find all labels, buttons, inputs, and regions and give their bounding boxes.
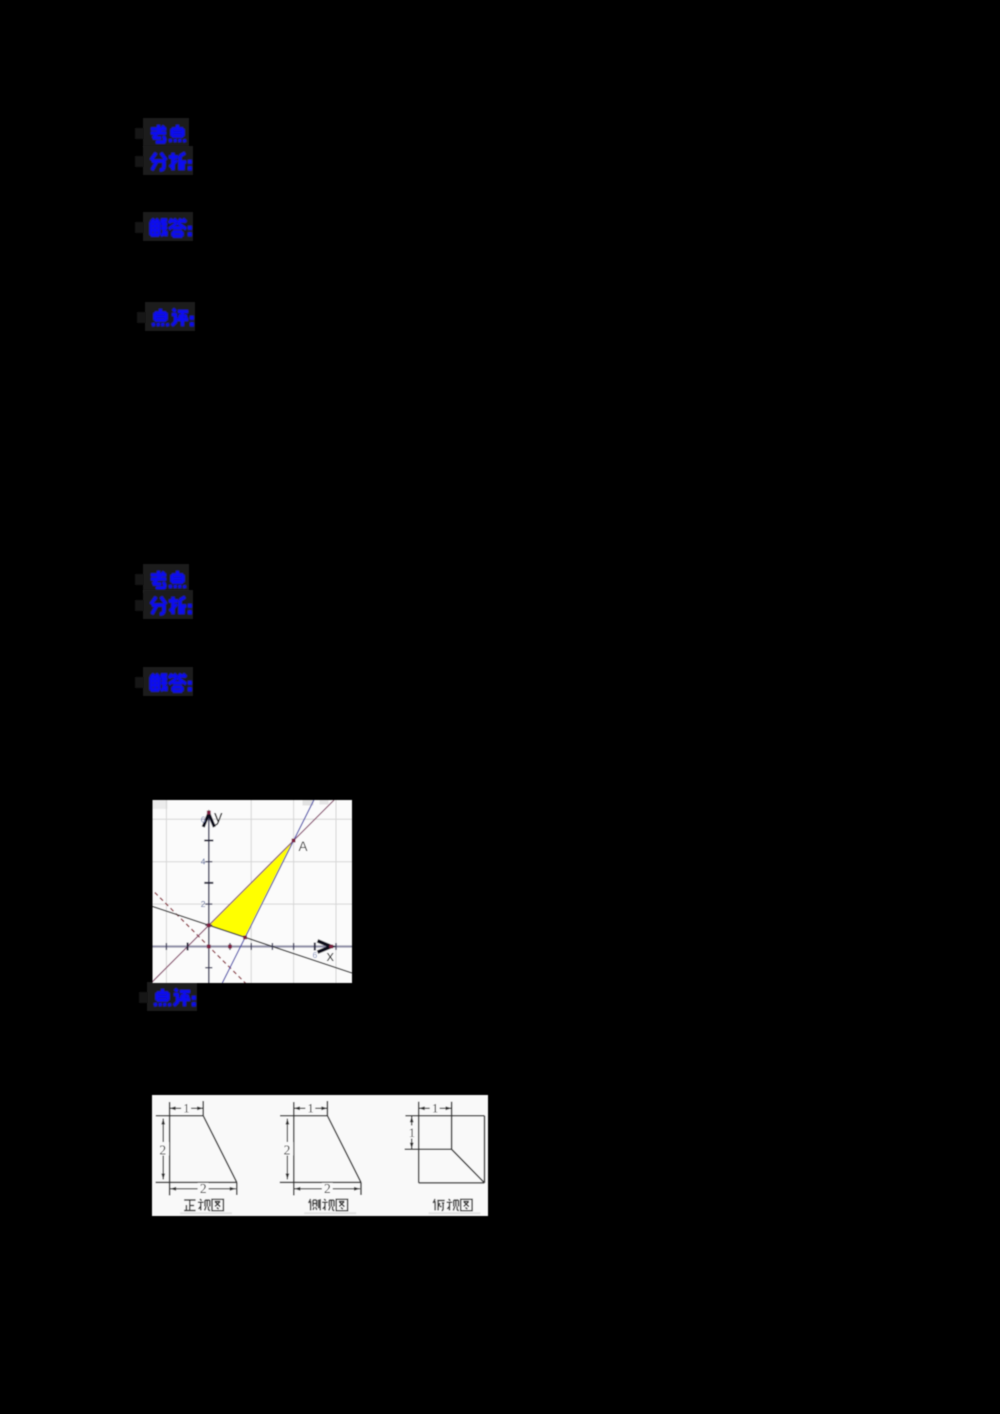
- three-view drawing strip: [152, 1095, 488, 1216]
- svg-text:1: 1: [409, 1126, 415, 1140]
- label 解答: (blue): [135, 212, 193, 241]
- top view caption: [433, 1199, 472, 1211]
- y-axis arrowhead: [203, 814, 214, 828]
- label 考点 (blue): [135, 564, 189, 593]
- y-axis: [208, 811, 210, 983]
- svg-text:2: 2: [201, 899, 206, 909]
- front view 正视图 dim 2 (left): [162, 1119, 164, 1180]
- graph figure: linear-programming feasible region: [151, 800, 352, 984]
- label 点评: (blue): [139, 982, 197, 1011]
- svg-text:6: 6: [201, 814, 206, 824]
- svg-text:1: 1: [307, 1102, 313, 1116]
- label 分析: (blue): [135, 590, 193, 619]
- top view dim 1 (left): [411, 1116, 413, 1149]
- side view 侧视图 trapezoid outline: [280, 1101, 361, 1195]
- blue line y=2x-3: [222, 800, 314, 983]
- svg-text:y: y: [214, 807, 223, 826]
- side view 侧视图 dim 1 (top): [294, 1107, 328, 1109]
- top view dim 1 (top): [419, 1107, 452, 1109]
- side view 侧视图 caption: [309, 1199, 348, 1211]
- gridlines: [153, 800, 353, 983]
- front view 正视图 dim 1 (top): [170, 1107, 204, 1109]
- graph canvas background: [153, 800, 353, 983]
- svg-text:2: 2: [324, 1181, 331, 1196]
- side view 侧视图 dim 2 (left): [286, 1119, 288, 1180]
- svg-text:2: 2: [200, 1181, 207, 1196]
- red vertex/point dots: [207, 811, 333, 949]
- label 点评: (blue): [137, 302, 195, 331]
- label 解答: (blue): [135, 667, 193, 696]
- dashed red line y=-x: [155, 893, 246, 984]
- svg-text:4: 4: [201, 857, 206, 867]
- svg-text:x: x: [327, 948, 335, 965]
- front view 正视图 caption: [184, 1199, 223, 1211]
- top view 俯视图 square outline: [405, 1102, 485, 1183]
- y-axis ticks: [205, 841, 212, 968]
- svg-text:2: 2: [159, 1143, 166, 1158]
- svg-text:A: A: [299, 839, 308, 854]
- x-axis arrowhead: [318, 941, 332, 952]
- x-axis: [153, 945, 353, 947]
- front view 正视图 trapezoid outline: [156, 1101, 237, 1195]
- svg-text:1: 1: [432, 1102, 438, 1116]
- front view 正视图 dim 2 (bottom): [170, 1188, 236, 1190]
- x-axis ticks: [166, 943, 336, 950]
- svg-text:2: 2: [284, 1143, 291, 1158]
- label 考点 (blue): [135, 118, 189, 147]
- svg-text:6: 6: [313, 950, 318, 960]
- black line x+3y=3: [153, 907, 353, 974]
- purple line y=x+1: [151, 800, 334, 983]
- label 分析: (blue): [135, 146, 193, 175]
- svg-text:1: 1: [183, 1102, 189, 1116]
- side view 侧视图 dim 2 (bottom): [294, 1188, 360, 1190]
- yellow feasible-region triangle: [209, 841, 294, 938]
